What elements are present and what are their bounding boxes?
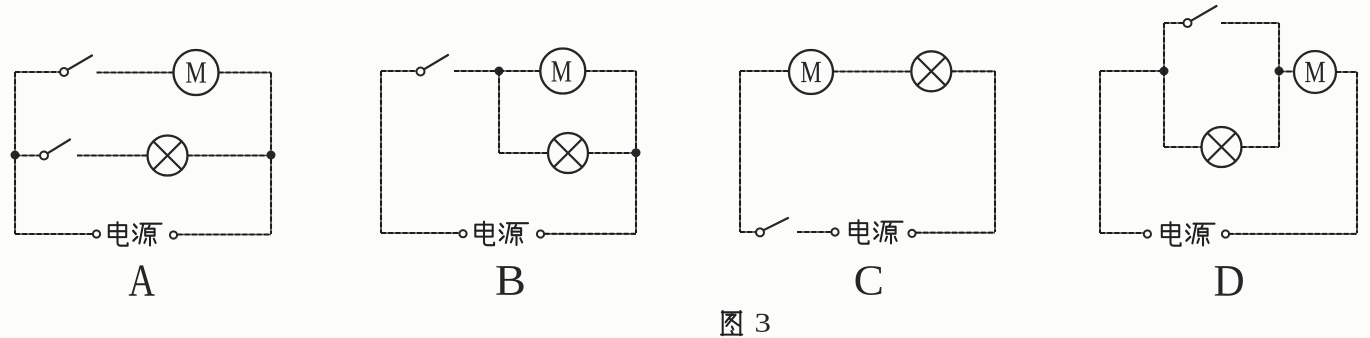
- label 电源 (A): [109, 222, 162, 246]
- wire D junction2 to motor: [1279, 71, 1294, 73]
- label C: [856, 266, 882, 295]
- wire B junction to motor: [499, 70, 540, 72]
- wire C right vertical: [994, 71, 996, 232]
- label D: [1215, 266, 1243, 296]
- wire C bottom-left to switch: [740, 231, 756, 233]
- terminal B right: [537, 230, 544, 237]
- wire A motor to top-right corner: [219, 72, 272, 74]
- wire D branch right vertical up: [1278, 71, 1280, 147]
- wire D right vertical: [1356, 72, 1358, 233]
- wire B top-left to switch: [381, 70, 417, 72]
- switch S5 (D): [1184, 19, 1192, 27]
- wire D branch to lamp: [1164, 146, 1202, 148]
- wire A top-left to switch: [15, 71, 60, 73]
- terminal D right: [1222, 230, 1229, 237]
- wire B left vertical: [380, 71, 382, 233]
- wire C left vertical: [739, 71, 741, 232]
- wire A right vertical: [270, 73, 272, 235]
- wire C battery to bottom-right: [916, 232, 995, 234]
- wire D battery to bottom-right: [1229, 233, 1358, 235]
- lamp L4 (D): [1202, 127, 1242, 167]
- wire B branch to lamp: [499, 152, 548, 154]
- label B: [496, 266, 523, 295]
- switch S4 (C): [756, 228, 764, 236]
- motor M (D): [1294, 51, 1336, 93]
- wire B branch vertical down: [498, 71, 500, 153]
- motor M (A): [174, 50, 219, 95]
- wire A left vertical: [14, 72, 16, 234]
- node D junction1: [1160, 67, 1169, 76]
- terminal D left: [1144, 230, 1151, 237]
- label 电源 (D): [1162, 222, 1215, 246]
- motor M (C): [789, 50, 833, 94]
- motor M (B): [540, 49, 585, 94]
- terminal A left: [93, 230, 100, 237]
- wire B battery to bottom-right: [545, 233, 637, 235]
- wire A lamp to right junction: [188, 155, 272, 157]
- wire D lamp branch left vertical: [1163, 71, 1165, 147]
- lamp L1 (A): [148, 136, 188, 176]
- terminal C right: [908, 230, 915, 237]
- label 电源 (B): [475, 222, 528, 246]
- wire D switch to bump right: [1221, 22, 1279, 24]
- wire D bump left vertical: [1163, 23, 1165, 71]
- wire B switch to junction: [454, 70, 499, 72]
- terminal A right: [170, 231, 177, 238]
- wire A switch to motor: [97, 72, 174, 74]
- wire D left vertical: [1099, 71, 1101, 233]
- node B right junction: [632, 148, 641, 157]
- wire C lamp to top-right: [951, 70, 995, 72]
- terminal C left: [831, 228, 838, 235]
- label A: [129, 265, 155, 295]
- wire C switch to battery: [797, 231, 831, 233]
- wire B right vertical: [635, 71, 637, 233]
- node D junction2: [1275, 67, 1284, 76]
- switch S1 (A top branch): [60, 68, 68, 76]
- lamp L2 (B): [548, 133, 588, 173]
- terminal B left: [459, 230, 466, 237]
- switch S2 (A middle branch): [40, 152, 48, 160]
- node A right junction: [267, 151, 276, 160]
- wire A switch2 to lamp: [77, 155, 148, 157]
- wire B lamp to right junction: [588, 152, 636, 154]
- wire D top-left to junction1: [1100, 70, 1164, 72]
- wire D motor to top-right: [1336, 71, 1357, 73]
- wire D bottom-left to battery: [1100, 232, 1144, 234]
- wire B motor to top-right: [585, 70, 636, 72]
- wire B bottom-left to battery: [381, 232, 459, 234]
- wire D bump top-left to switch: [1164, 22, 1184, 24]
- wire A battery to bottom-right: [178, 234, 272, 236]
- wire C motor to lamp: [833, 71, 912, 73]
- wire A bottom-left to battery terminal: [15, 233, 93, 235]
- switch S3 (B): [417, 68, 425, 76]
- node B top junction: [495, 67, 504, 76]
- caption 图 3: [721, 311, 742, 335]
- wire A junction to switch 2: [15, 155, 40, 157]
- wire D lamp to branch right: [1242, 146, 1280, 148]
- caption number 3: [756, 314, 770, 332]
- lamp L3 (C): [911, 51, 951, 91]
- wire C top-left to motor: [740, 70, 789, 72]
- node A left junction: [11, 151, 20, 160]
- label 电源 (C): [850, 220, 903, 244]
- wire D bump right vertical: [1278, 23, 1280, 71]
